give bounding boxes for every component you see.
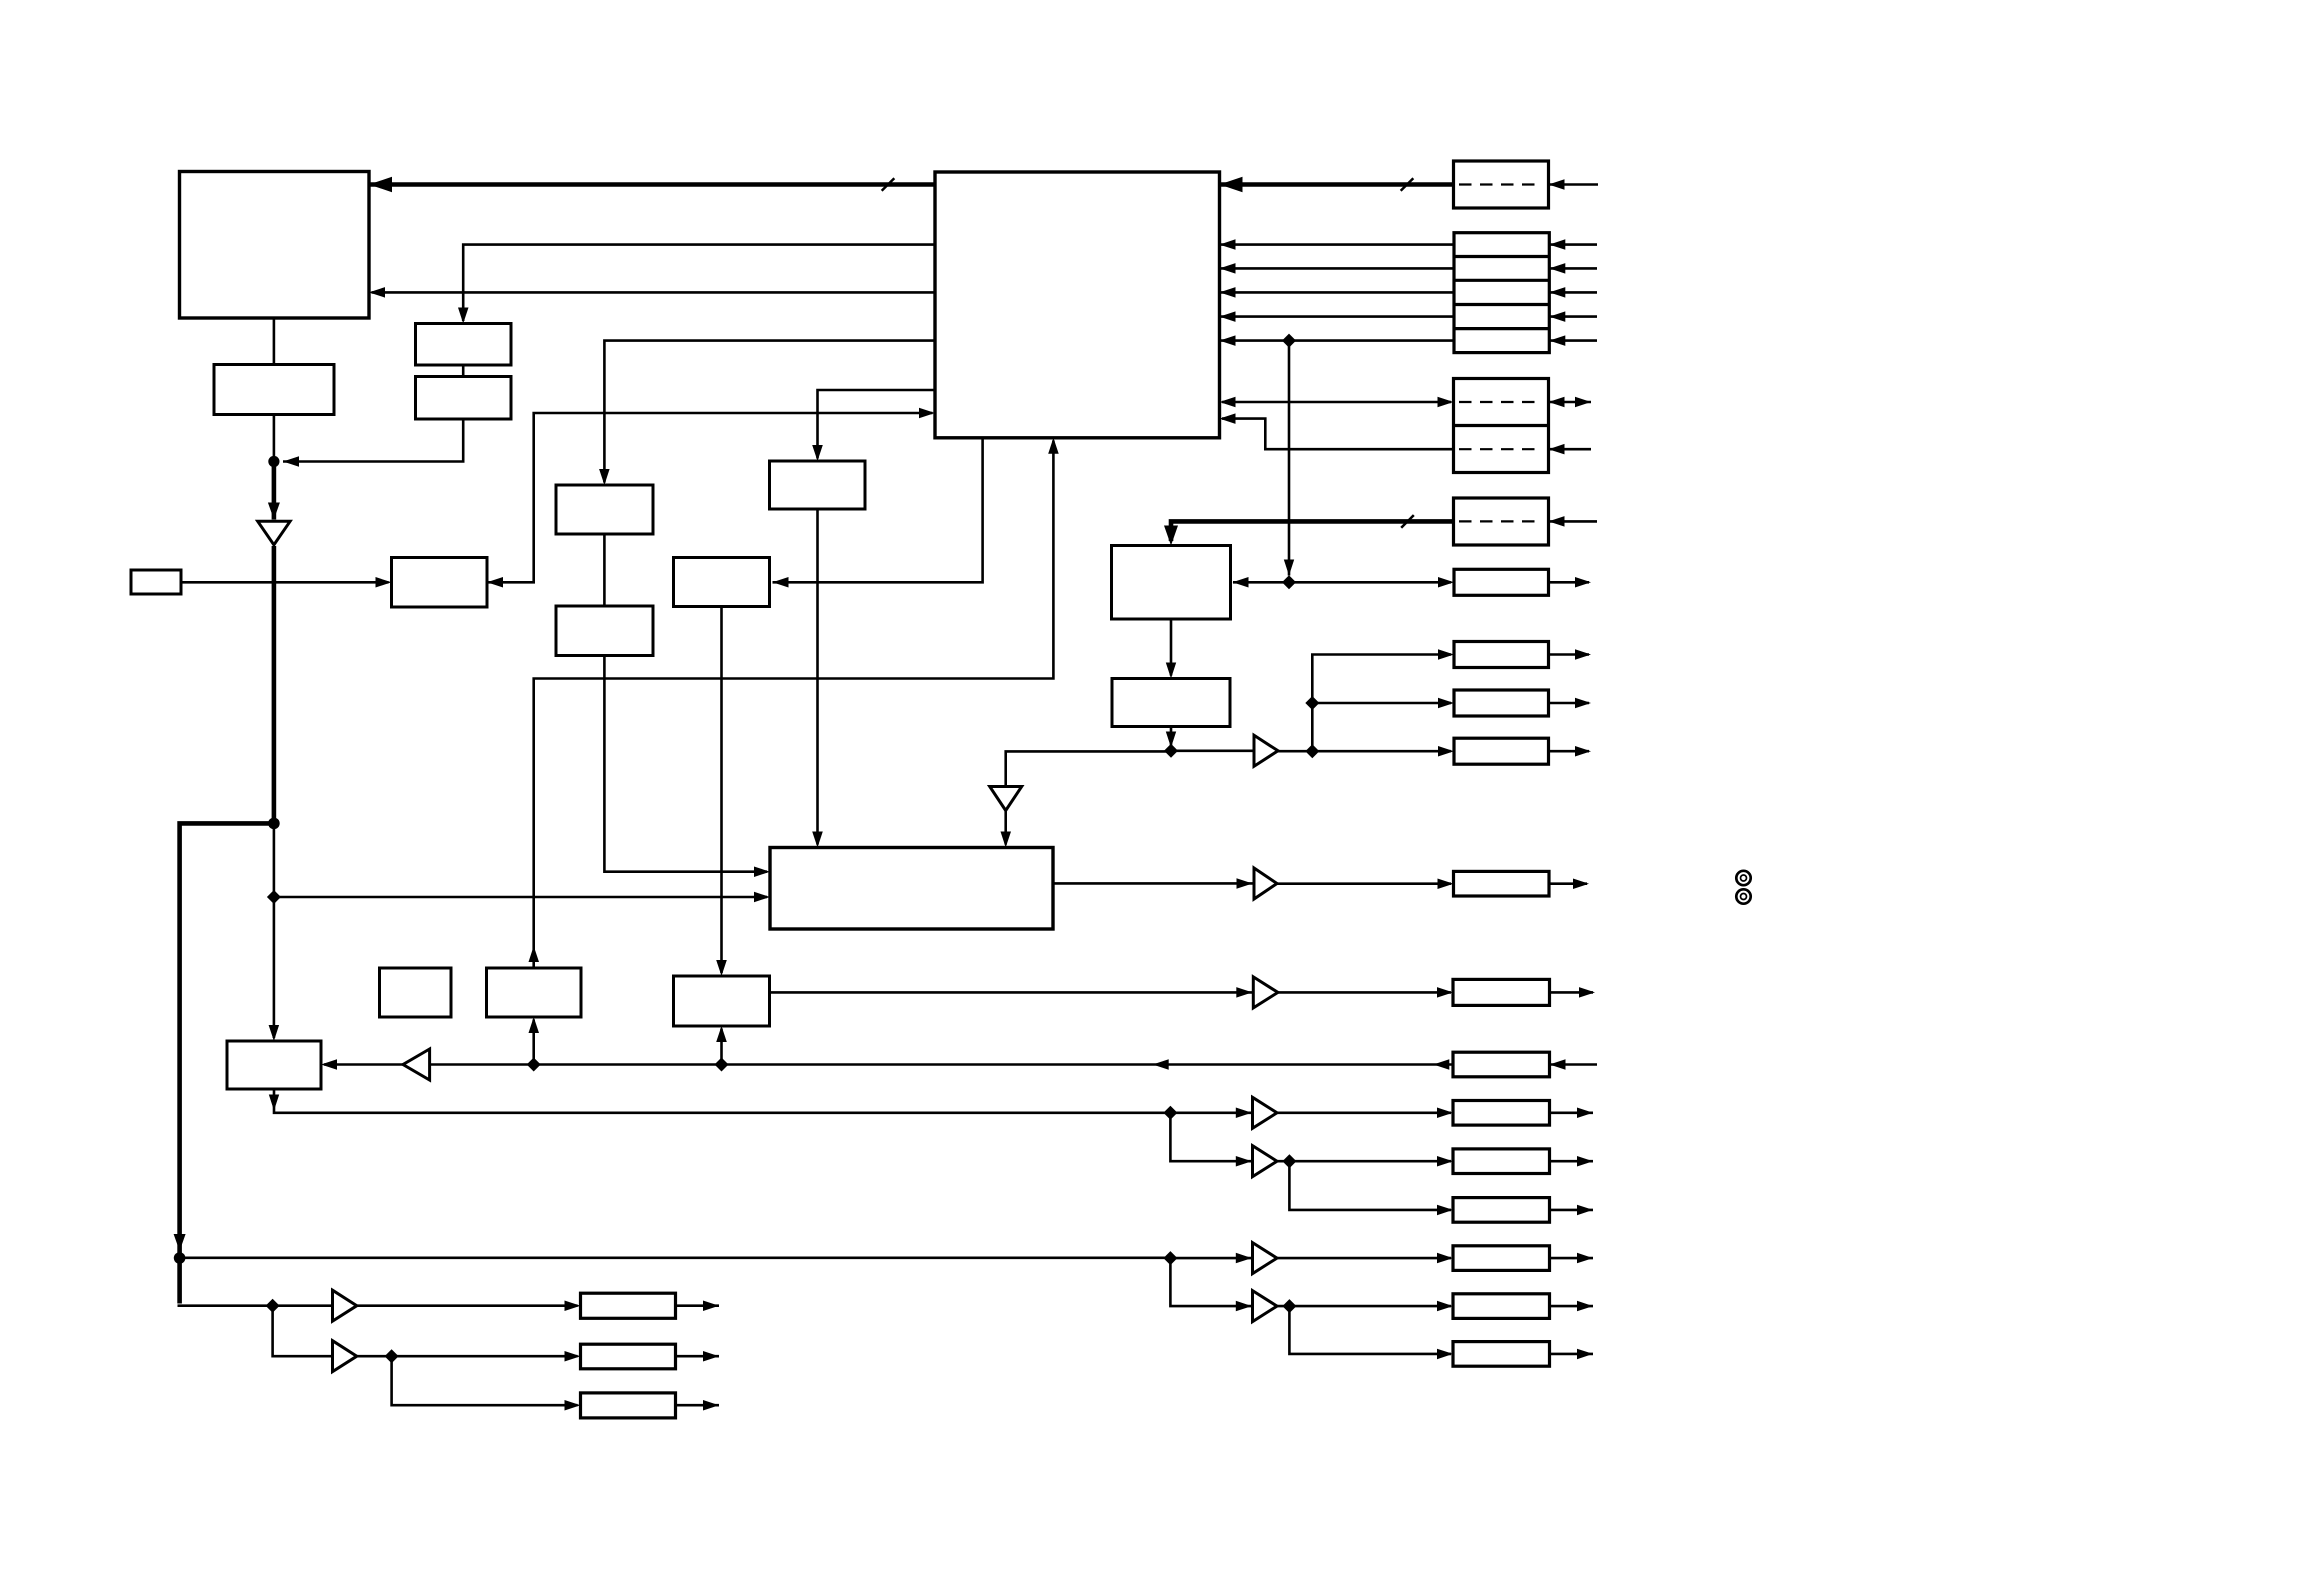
wire CN1 input stub [1549,183,1599,186]
arrow into node reset [283,456,299,467]
IC101 system control [180,172,370,319]
junction row B [1163,1106,1177,1120]
connector CN2 block [1454,233,1549,353]
arrow into IC501 [321,1059,337,1070]
wire bottom branch down [273,1306,333,1357]
connector CN10 [1454,690,1549,716]
arrow row2 into IC200 [1220,263,1236,274]
connector CN11 [1454,738,1549,764]
arrow y413 into IC200 [919,408,935,418]
IC451 block [1112,679,1230,727]
buffer B5 [1253,977,1278,1008]
IC400 block [1112,546,1231,620]
arrow into CN18 [1437,1253,1453,1264]
arrow CN8 out [1575,577,1591,588]
wire clock to buffer [1176,749,1254,752]
IC404 signal processor [770,848,1053,930]
wire buffer to IC501 [324,1063,403,1066]
wire buffer to CN19 [1277,1305,1451,1308]
wire CN9 output [1549,653,1590,656]
wire CN14 row [430,1063,1453,1066]
wire y582 to IC400 right [1233,581,1286,584]
arrow CN10 out [1575,698,1591,708]
arrow into IC405 top [716,960,727,976]
arrow VCO flow up [529,946,540,962]
wire CN16 output [1550,1160,1594,1163]
IC102 reset [214,365,334,415]
dashed CN1 [1459,183,1543,185]
connector CN5/CN6 [1454,379,1549,473]
bus from connector CN1 to IC200 (thick) [1220,182,1454,187]
arrow clock into IC404 [1001,832,1012,848]
arrow row3 input [1549,287,1565,298]
arrow into CN8 [1438,577,1454,588]
wire IC403 to IC405 [720,607,723,974]
divider CN2 row1 [1454,255,1549,258]
wire buffer to CN15 [1277,1112,1451,1115]
buffer B9 [1253,1243,1278,1274]
buffer B3 [1254,735,1278,766]
wire CN6 to IC200 [1222,419,1454,450]
arrow CN19 out [1577,1301,1593,1312]
junction VCO out [527,1058,541,1072]
arrow row3 into IC200 [1220,287,1236,298]
wire CN14 input stub [1550,1063,1598,1066]
wire row3 CN2 to IC200 [1220,291,1455,294]
arrow CNL3 out [703,1400,719,1411]
arrow bidir into CN5 [1438,397,1454,407]
bus CN7 to IC400 (thick) [1171,521,1454,541]
connector CNL3 [581,1393,676,1418]
wire X301 to X302 [603,534,606,606]
wire row1 IC200 to SW301 [463,245,935,321]
X302 divider [556,606,653,656]
junction y582 [1282,575,1296,589]
junction clock 1 [1305,696,1319,710]
arrow IC404 out mid [1237,878,1253,889]
arrow CN16 out [1577,1156,1593,1167]
wire IC405 out to buffer [770,991,1253,994]
arrow CN15 out [1577,1108,1593,1119]
wire row2 input stub [1549,267,1597,270]
arrow CN11 out [1575,746,1591,757]
arrow CNL1 out [703,1301,719,1312]
arrow bus into IC101 [369,177,392,192]
wire data bidir external [1549,401,1592,404]
arrow IC301 into IC404 [812,832,823,848]
slash bus left [882,178,895,191]
wire row2 CN2 to IC200 [1220,267,1455,270]
arrow CN12 out [1573,879,1589,890]
wire node A down [273,823,276,1038]
wire IC404 out to buffer [1053,882,1254,885]
arrow VCO up into IC200 [1048,438,1059,454]
arrow into CN13 [1437,987,1453,998]
arrow into CNL2 [565,1351,581,1362]
arrow IC405 out mid [1236,987,1252,998]
wire CN6 input stub [1549,448,1592,451]
SW301 switch block [416,324,512,366]
junction row D [1163,1251,1177,1265]
wire VCO loop [534,441,1054,968]
wire row5 branch down [1288,341,1291,576]
buffer B11 [333,1290,357,1321]
wire buffer to CN11 [1278,750,1451,753]
wire row4 input stub [1549,315,1597,318]
arrow CN18 out [1577,1253,1593,1264]
arrow row1 input [1549,239,1565,250]
arrow IC451 out down [1166,732,1176,748]
wire row4 CN2 to IC200 [1220,315,1455,318]
divider CN5/CN6 [1454,424,1549,427]
connector CN19 [1453,1294,1550,1319]
wire CN11 output [1549,750,1590,753]
arrow into CN16 [1437,1156,1453,1167]
wire branch to IC405 [720,1029,723,1065]
wire IC301 to IC404 top [816,509,819,845]
node reset junction [268,456,279,467]
X301 oscillator [556,485,653,534]
wire row D branch down [1170,1258,1252,1306]
arrow pre-buffer row E [1236,1301,1252,1312]
wire IC102 to node [273,415,276,457]
arrow CN14 input [1550,1059,1566,1070]
arrow bidir into IC200 [1220,397,1236,407]
wire row1 CN2 to IC200 [1220,243,1455,246]
arrow CN7 input [1549,516,1565,527]
wire node A to IC404 [274,896,767,899]
connector CN1 [1454,161,1549,208]
dashed CN7 [1459,520,1543,522]
connector CN15 [1453,1101,1550,1126]
wire buffer2 to CNL2 [357,1355,578,1358]
buffer B6 [403,1049,430,1080]
wire X302 out to IC404 [604,656,767,872]
wire CN18 output [1550,1257,1594,1260]
arrow into X301 [599,469,610,485]
IC402 block [392,558,488,608]
buffer B4 [1254,868,1277,899]
arrow y582 down [1284,560,1294,576]
wire buffer to CN12 [1277,882,1451,885]
connector CN8 [1454,569,1549,595]
arrow into CN10 [1438,698,1454,708]
IC403 block [674,558,770,607]
bold wire node A down from buffer [272,546,277,823]
X401 resonator [380,968,452,1017]
wire bottom rail row [185,1257,1167,1260]
wire clock branch up [1312,655,1451,752]
arrow into CNL1 [565,1301,581,1312]
arrow CN13 out [1579,987,1595,998]
wire y582 to CN8 [1292,581,1451,584]
node A junction [268,818,280,830]
arrow bus into IC200 [1220,177,1243,192]
junction row E [1282,1299,1296,1313]
wire buffer to CN13 [1278,991,1451,994]
wire CN7 input stub [1549,520,1598,523]
arrow row2 input [1549,263,1565,274]
arrow pre-buffer row C [1236,1156,1252,1167]
bold wire node to buffer [272,462,277,520]
connector CN12 [1454,871,1550,896]
wire row C branch down [1289,1161,1451,1210]
bus from IC200 to IC101 (thick) [369,182,935,187]
dashed CN6 [1459,448,1543,450]
arrow into CN9 [1438,649,1454,660]
wire IC401 clock [1006,751,1168,786]
wire CN10 output [1549,702,1590,705]
junction bottom 1 [266,1299,280,1313]
arrow row5 input [1549,335,1565,346]
wire CN8 output [1549,581,1590,584]
wire bottom row1 to buffer [273,1304,333,1307]
wire IC200 to IC403 [773,438,983,583]
arrow row1 into IC200 [1220,239,1236,250]
IC501 block [227,1041,321,1089]
arrow bidir ext right [1575,397,1591,407]
arrow into IC451 [1166,663,1176,679]
arrow into IC501 top [269,1025,280,1041]
connector CN18 [1453,1246,1550,1271]
arrow into CN17 [1437,1205,1453,1216]
buffer B10 [1253,1291,1278,1322]
arrow rail down [174,1234,186,1251]
wire buffer to CN18 [1277,1257,1451,1260]
arrow into IC400 right [1233,577,1249,588]
junction IC451 out [1164,744,1178,758]
arrow node to buffer B1 [268,503,280,520]
wire row E branch down [1289,1306,1451,1354]
wire CN17 output [1550,1209,1594,1212]
wire buffer to CNL1 [357,1304,578,1307]
arrow X302 into IC404 [754,867,770,878]
connector CN17 [1453,1198,1550,1223]
wire IC101 to IC102 [273,318,276,365]
junction IC405 row [715,1058,729,1072]
arrow bus into IC400 [1164,526,1178,546]
connector CN9 [1454,642,1549,668]
arrow into IC301 [812,445,823,461]
divider CN2 row2 [1454,279,1549,282]
test point TP1 [1736,871,1750,885]
wire CN13 output [1550,991,1594,994]
arrow into CNL3 [565,1400,581,1411]
connector CN7 [1454,498,1549,545]
buffer B8 [1253,1146,1278,1177]
wire buffer to CN16 [1277,1160,1451,1163]
arrow into CN11 [1438,746,1454,757]
node left rail junction [174,1252,186,1264]
wire clock into IC404 [1004,811,1007,845]
arrow into CN12 [1438,879,1454,890]
bold wire left rail to bottom corner [177,1258,182,1304]
slash bus right [1401,178,1414,191]
arrow row4 into IC200 [1220,311,1236,322]
wire SW301 to IC104 [462,365,465,377]
wire row B branch down [1170,1113,1252,1161]
arrow IC501 out down [269,1095,279,1111]
IC104 sub block [416,377,512,420]
arrow CN14 flow mid 2 [1153,1059,1169,1070]
divider CN2 row3 [1454,303,1549,306]
test point TP2 [1736,889,1750,903]
arrow row3 into IC101 [369,287,385,298]
connector CN14 [1453,1052,1550,1077]
junction row5 [1282,334,1296,348]
wire CN15 output [1550,1112,1594,1115]
arrow CN14 flow mid 1 [1433,1059,1449,1070]
wire data bidir IC200-CN5 [1222,401,1451,404]
arrow CN6 into IC200 [1220,413,1236,424]
connector CN16 [1453,1149,1550,1174]
wire row B to buffer [1170,1112,1252,1115]
divider CN2 row4 [1454,327,1549,330]
wire row3 input stub [1549,291,1597,294]
IC406 VCO [487,968,582,1017]
wire branch to VCO [532,1020,535,1065]
arrow into CN15 [1437,1108,1453,1119]
wire CN19 output [1550,1305,1594,1308]
wire row5 IC200 to X301 [604,341,935,483]
wire IC501 out [274,1089,1167,1113]
wire row5 CN2 to IC200 [1220,339,1455,342]
wire bottom branch down 2 [392,1356,578,1405]
slash bus CN7 [1401,515,1414,528]
wire CN20 output [1550,1353,1594,1356]
buffer B12 [333,1341,357,1372]
arrow row4 input [1549,311,1565,322]
wire CNL3 output [676,1404,720,1407]
buffer B7 [1253,1097,1278,1128]
connector CNL1 [581,1293,676,1318]
wire IC104 to node [283,419,463,462]
wire CNL2 output [676,1355,720,1358]
junction node A row [267,890,281,904]
arrow into CN20 [1437,1349,1453,1360]
wire row390 IC200 to IC301 [818,390,936,459]
IC301 block [770,461,866,509]
wire CN12 output [1549,882,1587,885]
wire branch to CN10 [1312,702,1451,705]
junction row C [1282,1154,1296,1168]
arrow CNL2 out [703,1351,719,1362]
arrow CN17 out [1577,1205,1593,1216]
buffer B1 (inverter down) [258,521,290,545]
arrow CN6 input [1549,444,1565,455]
arrow CN1 input [1549,179,1565,190]
arrow into IC406 bottom [529,1017,540,1033]
wire row3 IC200 to IC101 [372,291,936,294]
connector CNL2 [581,1344,676,1369]
junction bottom 2 [385,1349,399,1363]
arrow pre-buffer row B [1236,1108,1252,1119]
wire IC400 to IC451 [1170,619,1173,676]
IC200 main processor [935,172,1220,438]
arrow into IC402 left [376,577,392,588]
wire row5 input stub [1549,339,1597,342]
wire row D to buffer [1170,1257,1252,1260]
wire X101 to IC402 [181,581,389,584]
arrow into SW301 [458,308,469,324]
arrow CN9 out [1575,649,1591,660]
IC405 block [674,976,770,1026]
wire CNL1 output [676,1304,720,1307]
X101 clock box [131,570,181,594]
arrow into CN19 [1437,1301,1453,1312]
arrow into IC402 right [487,577,503,588]
buffer B2 (clock down) [990,787,1022,811]
arrow CN20 out [1577,1349,1593,1360]
connector CN13 [1453,979,1550,1005]
connector CN20 [1453,1342,1550,1367]
wire net y413 to IC200 [488,413,933,582]
arrow bidir ext left [1549,397,1565,407]
arrow nodeA into IC404 [754,892,770,902]
wire row1 input stub [1549,243,1597,246]
arrow into IC403 [773,577,789,588]
wire bottom corner to junction [178,1304,270,1307]
arrow pre-buffer row D [1236,1253,1252,1264]
wire IC451 out [1170,727,1173,748]
junction clock 2 [1305,744,1319,758]
dashed CN5 [1459,401,1543,403]
arrow into IC405 bottom [716,1026,727,1042]
bold wire from node A to left rail [180,823,274,1255]
arrow row5 into IC200 [1220,335,1236,346]
